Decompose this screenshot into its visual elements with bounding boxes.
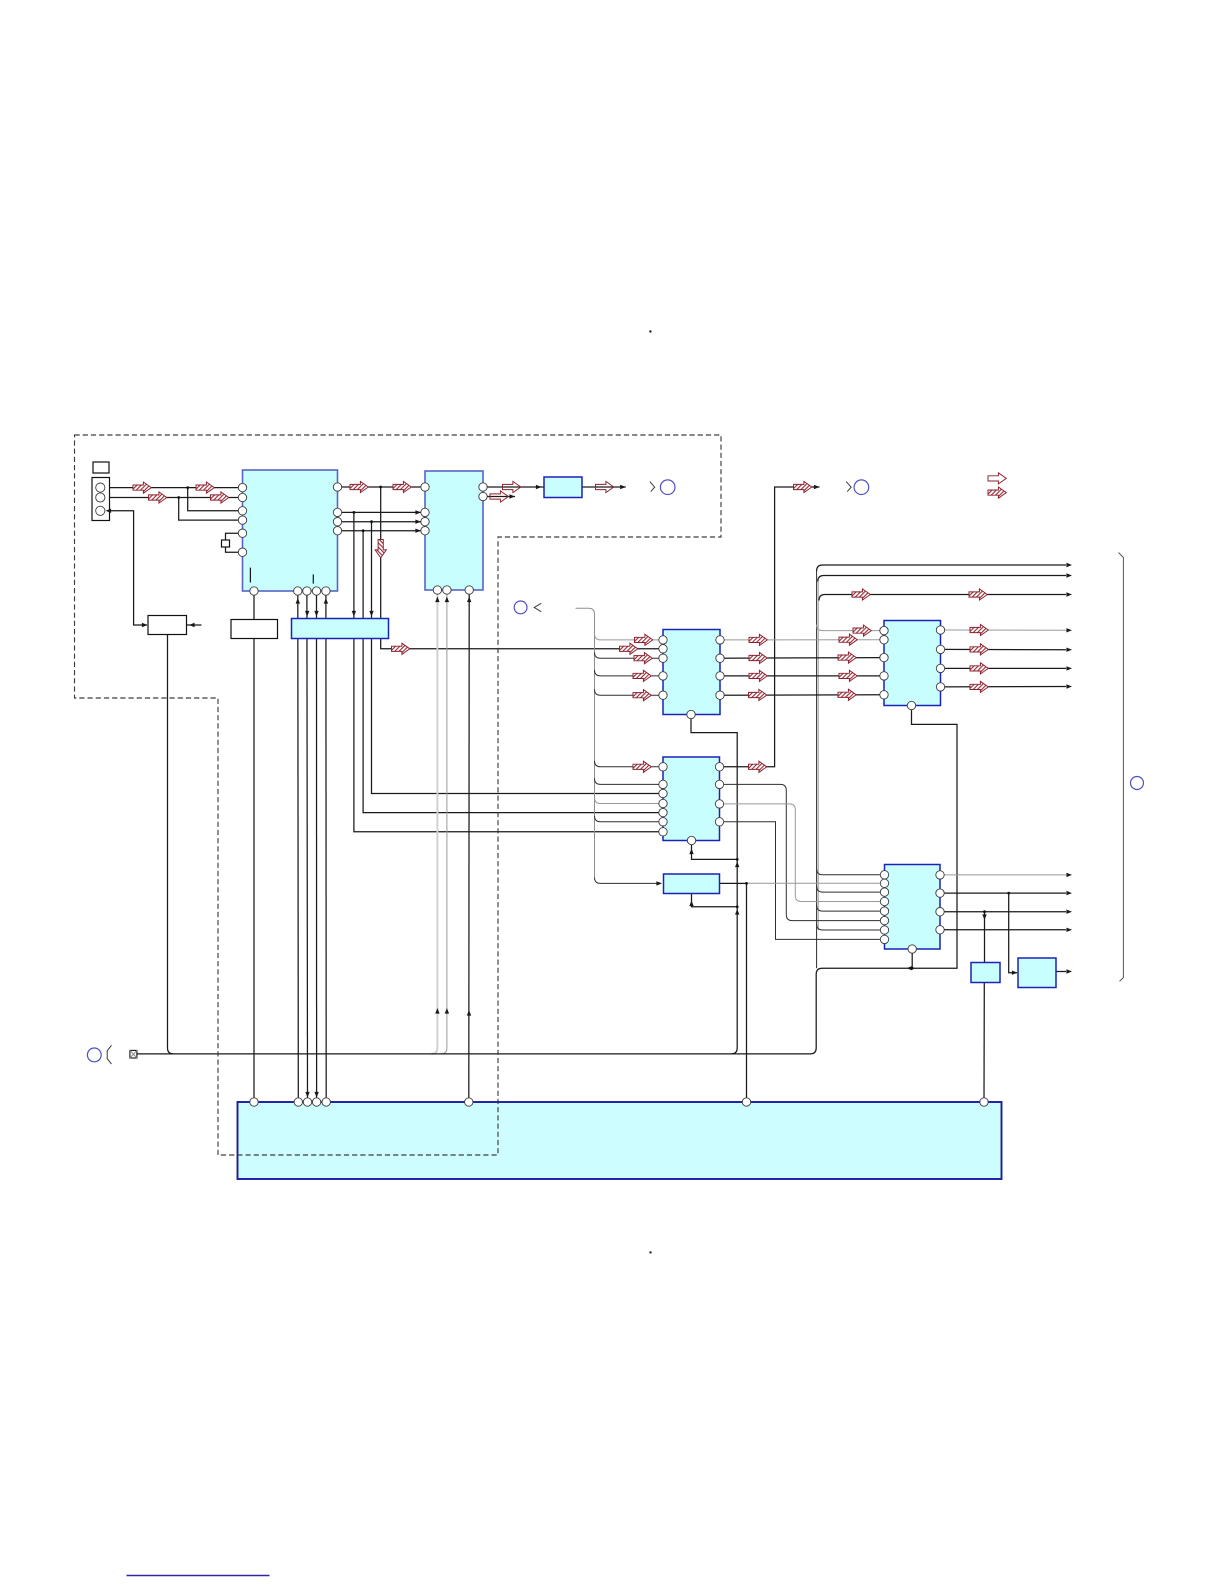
misc small arrowheads xyxy=(106,509,112,513)
arrow bus to IC3 p2 xyxy=(620,643,638,654)
wire fan to IC3 pin1 xyxy=(595,634,664,640)
IC3 right pins xyxy=(716,636,724,644)
wire register bottom to clock line xyxy=(692,894,738,907)
wire bundle vertical 2 xyxy=(817,582,819,931)
wire IC4 out4 xyxy=(941,686,1067,688)
wire long line 1 xyxy=(817,565,1066,571)
wire vertical drop data1 to IC5 pin7 xyxy=(354,512,663,831)
wire fan to register input xyxy=(595,877,662,883)
IC5 bottom pin xyxy=(687,836,695,844)
wire IC1 to IC2 data1 xyxy=(338,511,426,513)
wire bundle branch to IC6 pin3 xyxy=(817,886,885,892)
offpage connector C circle with < xyxy=(514,601,527,614)
bottom bus bar xyxy=(238,1102,1002,1179)
wire IC6 out4 xyxy=(940,929,1066,931)
wire IC5 out1 up to offpage B xyxy=(720,487,820,767)
legend arrows top right xyxy=(988,473,1006,484)
wire conn J1 pin2 to IC1 pin2 xyxy=(104,497,243,499)
wire IC6 out2 xyxy=(940,892,1066,894)
wire vertical drop data2 to IC5 pin3 xyxy=(372,522,664,794)
tiny dot bottom xyxy=(649,1251,651,1253)
wire bundle vertical xyxy=(816,571,818,968)
wire IC2 bottom pin2 (gray) to xline xyxy=(441,590,447,1054)
wire bundle branch to IC6 pin7 xyxy=(817,924,885,930)
junction dots xyxy=(186,486,189,489)
box B xyxy=(1018,958,1056,988)
IC2 left pins xyxy=(421,483,429,491)
wire IC1 to IC2 data3 xyxy=(338,530,426,532)
offpage connector B circle xyxy=(846,482,851,492)
IC2 right pins xyxy=(479,483,487,491)
arrow sig2 b xyxy=(211,492,229,503)
wire register out to IC6 pin2 xyxy=(720,882,748,884)
IC6 xyxy=(885,865,941,950)
arrow down drop xyxy=(375,540,386,558)
wire IC6 out3 xyxy=(940,911,1066,913)
wire fan to IC5 pin1 xyxy=(595,761,664,767)
wire IC3 out3 to IC4 pin4 xyxy=(720,675,884,677)
IC6 left pins xyxy=(880,871,888,879)
arrow fan IC3 p1 xyxy=(635,634,653,645)
wire register out branch to bottom bar xyxy=(746,883,748,1102)
wire IC2 out2 stub xyxy=(483,496,515,498)
arrow IC3 out3 b xyxy=(839,670,857,681)
wire IC1 bottom pin1 to bottom bar xyxy=(253,591,255,1102)
dashed block outline xyxy=(75,435,722,1155)
bus bar xyxy=(292,619,389,639)
wire IC4 out3 xyxy=(941,667,1067,669)
IC4 right pins xyxy=(936,626,944,634)
IC1 bottom pins xyxy=(250,587,258,595)
bracket circle xyxy=(1131,777,1144,790)
connector J1 pins xyxy=(96,483,105,492)
wire bundle branch to IC6 pin1 xyxy=(817,869,885,875)
IC6 bottom pin xyxy=(908,945,916,953)
wire IC5 out2 to IC6 pin6 xyxy=(720,784,885,920)
wire IC3 out1 to IC4 pin2 (gray) xyxy=(720,639,884,641)
box1 (white) xyxy=(148,616,187,635)
wire IC6 bottom to clock junction xyxy=(911,949,913,968)
wire IC1 to IC2 data0 xyxy=(338,486,426,488)
arrow IC4 out2 xyxy=(970,644,988,655)
wire vertical drop data3 to IC5 pin5 xyxy=(363,531,663,813)
tiny dot top xyxy=(649,330,651,332)
wire branch to IC1 pin4 xyxy=(179,498,243,521)
wire IC5 out4 to IC6 pin8 xyxy=(720,822,885,940)
arrow IC3 out3 a xyxy=(749,670,767,681)
box2 (white) xyxy=(231,620,278,639)
wire bundle branch to IC6 pin5 xyxy=(817,905,885,911)
wire IC6 out1 (gray) xyxy=(940,874,1066,876)
arrow open filter out xyxy=(596,481,614,492)
wire fan to IC5 pin4 (gray) xyxy=(595,798,664,804)
wire fan to IC5 pin6 xyxy=(595,816,664,822)
arrow line3 a xyxy=(852,589,870,600)
wire IC2 bottom pin3 to bottom bar xyxy=(468,590,470,1102)
wire IC3 out4 to IC4 pin5 xyxy=(720,694,884,696)
arrow fan IC3 p4 xyxy=(633,670,651,681)
wire IC6 out3 branch to box A xyxy=(984,912,986,963)
wire IC4 out2 xyxy=(941,648,1067,650)
wire box B output xyxy=(1056,971,1066,973)
wire IC4 out1 (gray) xyxy=(941,629,1067,631)
wire IC2 bottom pin1 (gray) to xline xyxy=(431,590,437,1054)
IC1 inner tick1 xyxy=(249,568,251,583)
IC2 xyxy=(425,471,483,590)
IC1 inner tick2 xyxy=(312,574,314,583)
IC6 right pins xyxy=(936,871,944,879)
arrow IC3 out2 a xyxy=(749,652,767,663)
wire bundle branch to IC4 pin1 (gray) xyxy=(817,625,884,631)
offpage connector A circle xyxy=(650,482,655,492)
wire IC1 bottom pin3 to bottom bar xyxy=(306,591,309,1102)
wire xline from external symbol xyxy=(137,706,957,1054)
wire IC1 to IC2 data2 xyxy=(338,521,426,523)
arrow IC3 out2 b xyxy=(838,652,856,663)
arrow IC5 out1 xyxy=(749,761,767,772)
right bracket xyxy=(1119,553,1124,982)
arrow fan IC3 p5 xyxy=(633,690,651,701)
arrow IC3 out4 b xyxy=(838,689,856,700)
register box xyxy=(664,874,720,894)
IC1 right pins xyxy=(333,483,341,491)
wire IC1 bottom pin2 to bottom bar xyxy=(297,591,300,1102)
wire IC5 bottom to clock line xyxy=(692,841,738,860)
wire long line 3 xyxy=(819,595,1066,601)
IC5 right pins xyxy=(715,763,723,771)
box A xyxy=(971,963,1000,983)
filter box F1 xyxy=(544,477,582,498)
arrow IC3 out4 a xyxy=(749,689,767,700)
boxed X terminal xyxy=(130,1050,137,1058)
wire IC1 bottom pin4 to bottom bar xyxy=(316,591,318,1102)
arrow IC4 out3 xyxy=(970,663,988,674)
wire fan vertical from offpage C xyxy=(576,608,595,877)
external clock symbol circle ( xyxy=(87,1048,101,1062)
wire box A to bottom bar xyxy=(983,983,985,1103)
arrow open IC2 out1 xyxy=(503,481,521,492)
wire fan to IC3 pin5 xyxy=(595,689,664,695)
line end arrowheads at right bracket xyxy=(1066,563,1072,567)
wire fan to IC3 pin3 xyxy=(595,652,664,658)
bottom blue rule xyxy=(127,1575,270,1577)
arrow IC4 out1 xyxy=(970,624,988,635)
wire IC6 out2 branch to box B xyxy=(1009,893,1017,973)
IC5 xyxy=(663,757,720,841)
wire vertical drop from data0 through bus bar to IC3 pin2 xyxy=(381,487,663,649)
wire conn J1 pin1 to IC1 pin1 xyxy=(104,487,243,489)
IC4 left pins xyxy=(880,626,888,634)
wire IC2 out1 to filter xyxy=(483,486,544,488)
wire branch to IC1 pin3 xyxy=(188,488,243,511)
arrow fan IC5 p1 xyxy=(633,761,651,772)
wire IC1 bottom pin5 to bottom bar xyxy=(325,591,327,1102)
arrow data0 b xyxy=(393,481,411,492)
IC1 xyxy=(243,470,338,591)
arrow data0 a xyxy=(350,481,368,492)
arrow IC2 out2 xyxy=(490,491,508,502)
arrow IC4 out4 xyxy=(970,681,988,692)
wire box1 right stub xyxy=(187,624,202,626)
wire IC5 out3 to IC6 pin4 (gray) xyxy=(720,804,885,902)
IC3 xyxy=(663,630,720,715)
arrow IC3 out1 b xyxy=(839,634,857,645)
arrow line3 b xyxy=(969,589,987,600)
arrow to IC3 pin2 xyxy=(392,643,410,654)
IC2 bottom pins xyxy=(433,586,441,594)
IC3 left pins xyxy=(659,636,667,644)
arrow sig1 b xyxy=(196,482,214,493)
arrow sig1 a xyxy=(133,482,151,493)
arrow to IC4 pin1 xyxy=(853,625,871,636)
bottom bar top pins xyxy=(250,1098,258,1106)
arrow offpage B xyxy=(794,481,812,492)
IC5 left pins xyxy=(659,763,667,771)
wire fan to IC3 pin4 xyxy=(595,670,664,676)
connector J1 header square xyxy=(93,462,109,473)
connector J1 xyxy=(92,478,110,521)
wire long line 2 xyxy=(818,576,1066,582)
wire conn J1 pin3 down to box1 xyxy=(104,511,147,625)
IC4 xyxy=(884,621,941,706)
arrow IC3 out1 a xyxy=(749,634,767,645)
wire fan to IC5 pin2 xyxy=(595,778,664,784)
wire IC3 out2 to IC4 pin3 xyxy=(720,657,884,660)
arrow sig2 a xyxy=(149,492,167,503)
wire IC3 bottom clock down xyxy=(691,715,737,1054)
crystal X1 xyxy=(226,533,243,540)
arrow fan IC3 p3 xyxy=(634,653,652,664)
IC3 bottom pin xyxy=(687,710,695,718)
IC4 bottom pin xyxy=(907,701,915,709)
IC1 left pins xyxy=(238,483,246,491)
wire filter to offpage A xyxy=(582,486,626,488)
wire box1 bottom to xline xyxy=(168,635,174,1054)
